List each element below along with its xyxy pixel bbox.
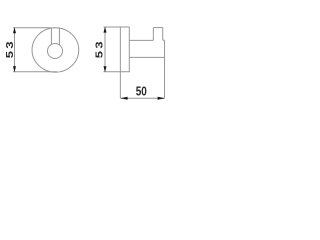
right 53 dim extension top + plate top xyxy=(104,26,130,28)
hook slot right line xyxy=(58,29,60,46)
svg-text:53: 53 xyxy=(95,39,105,58)
right 53 dim extension bottom + plate bottom xyxy=(104,71,131,73)
left dim extension bottom xyxy=(13,71,57,73)
left dim extension top xyxy=(13,27,51,29)
arrow left 50dim xyxy=(120,97,127,100)
arrow down right53 bottom xyxy=(104,66,107,72)
hook tip top edge xyxy=(153,27,162,29)
hook tip right edge xyxy=(162,28,164,41)
step between tip and arm end xyxy=(163,39,165,41)
left dimension line 53 xyxy=(14,28,16,72)
arm top edge xyxy=(129,39,153,41)
arrow down left53 bottom xyxy=(13,66,16,72)
plate left edge + 50dim left extension xyxy=(119,27,121,98)
hook slot left line xyxy=(50,28,52,44)
bottom dimension line 50 xyxy=(121,97,165,99)
hub inner circle xyxy=(48,44,63,59)
svg-text:53: 53 xyxy=(5,39,15,58)
right dimension line 53 xyxy=(104,27,106,72)
arrow right 50dim xyxy=(158,97,165,100)
rosette outer circle xyxy=(32,28,79,72)
arrow up right53 top xyxy=(104,27,107,33)
arrow up left53 top xyxy=(13,27,16,33)
arm bottom edge xyxy=(129,56,164,58)
hook tip left edge xyxy=(152,28,154,41)
arm right edge + 50dim right extension xyxy=(164,40,166,98)
plate right edge xyxy=(128,27,130,72)
svg-text:50: 50 xyxy=(136,85,147,98)
